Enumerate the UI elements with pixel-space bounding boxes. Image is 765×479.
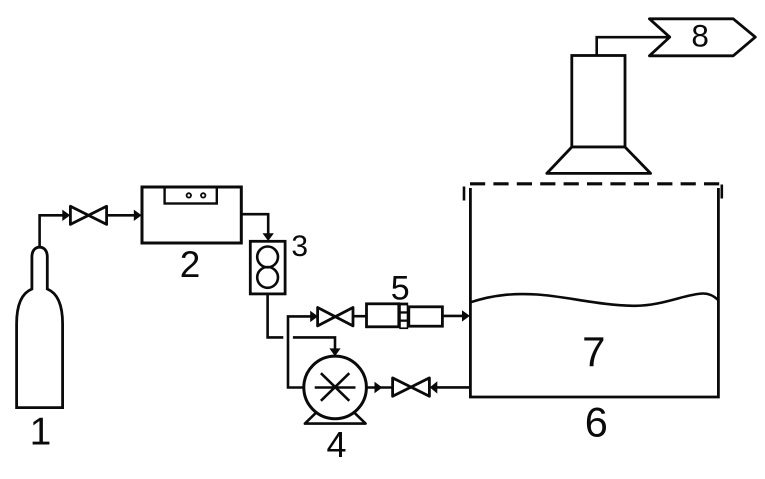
svg-text:7: 7 — [582, 328, 605, 375]
pipe pump to drain valve — [366, 386, 392, 389]
flow arrow into controller 2 — [134, 210, 142, 221]
filter 5 left body — [367, 304, 399, 327]
svg-text:3: 3 — [291, 230, 308, 263]
flow arrow into tank wall — [462, 310, 470, 321]
flow arrow into flow meter 3 — [263, 233, 274, 241]
flow arrow out of pump — [375, 382, 383, 393]
valve (cylinder outlet) — [70, 206, 106, 224]
flow meter lower ball — [257, 267, 278, 288]
svg-text:4: 4 — [326, 424, 346, 465]
tank 6 walls — [470, 188, 718, 397]
tank drain valve — [393, 378, 430, 396]
pump impeller spokes — [315, 373, 356, 401]
pipe controller 2 to flow meter 3 — [241, 214, 268, 234]
lid left corner tick — [463, 187, 466, 201]
exhaust hood — [547, 147, 651, 173]
flow arrow into recirculation valve — [310, 311, 318, 322]
pump 4 stand — [305, 413, 366, 424]
flow meter upper ball — [257, 247, 278, 268]
mass flow controller 2 — [142, 187, 241, 243]
pipe pump outlet riser to valve line — [288, 316, 312, 387]
pipe tank to drain valve — [437, 386, 471, 389]
panel indicator dot right — [201, 193, 205, 197]
pipe segment to pump top — [293, 337, 335, 349]
recirculation valve — [318, 308, 353, 326]
flow arrow from tank into drain valve — [430, 381, 438, 393]
pipe filter 5 to tank — [442, 315, 463, 318]
vent pipe to flag — [597, 37, 670, 55]
flow arrow into valve — [62, 210, 70, 221]
pipe valve to filter 5 — [353, 315, 367, 318]
svg-text:8: 8 — [691, 18, 709, 54]
svg-text:6: 6 — [585, 399, 608, 446]
flow meter 3 — [250, 241, 285, 294]
svg-text:1: 1 — [30, 410, 52, 453]
pump 4 casing — [304, 356, 367, 419]
svg-text:5: 5 — [391, 269, 410, 307]
liquid surface wave — [470, 293, 718, 305]
exhaust stack — [572, 56, 625, 148]
svg-text:2: 2 — [180, 244, 201, 285]
pipe cylinder to valve — [40, 215, 64, 247]
pipe flow meter 3 down and right to pump — [268, 294, 284, 338]
panel indicator dot left — [187, 193, 191, 197]
filter 5 right body — [409, 307, 443, 326]
lid right corner tick — [720, 185, 723, 199]
pipe valve to controller 2 — [107, 214, 135, 217]
filter 5 coupling — [399, 303, 408, 330]
controller display panel — [165, 187, 217, 204]
vent flag 8 — [649, 19, 755, 56]
flow arrow into pump top — [329, 348, 340, 356]
gas cylinder 1 — [17, 247, 63, 407]
tank dashed top lid — [470, 182, 722, 185]
